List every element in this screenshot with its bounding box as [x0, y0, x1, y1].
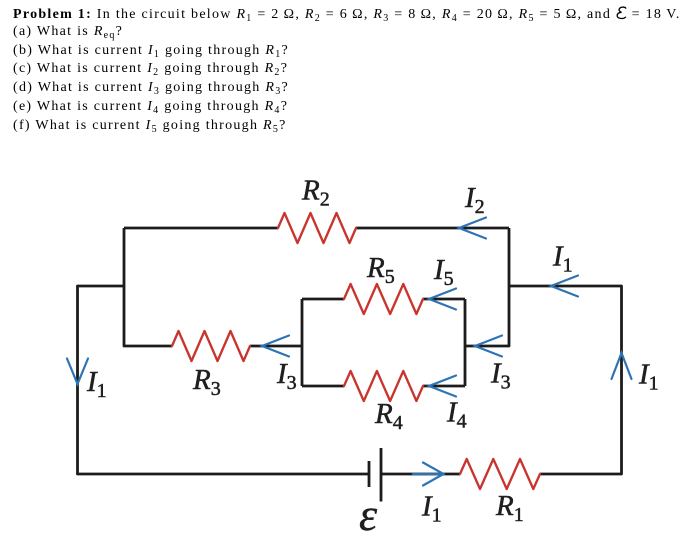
- svg-text:R5: R5: [366, 252, 395, 288]
- svg-text:R2: R2: [301, 175, 330, 211]
- svg-text:I3: I3: [490, 358, 511, 394]
- svg-text:ε: ε: [359, 489, 378, 540]
- svg-text:R3: R3: [192, 364, 221, 400]
- svg-text:I2: I2: [464, 182, 485, 218]
- svg-text:R1: R1: [495, 490, 524, 526]
- svg-text:I3: I3: [276, 358, 297, 394]
- svg-text:I4: I4: [446, 397, 467, 433]
- svg-text:R4: R4: [374, 398, 403, 434]
- svg-text:I1: I1: [638, 359, 659, 395]
- svg-text:I5: I5: [433, 254, 454, 290]
- svg-text:I1: I1: [86, 366, 107, 402]
- svg-text:I1: I1: [421, 491, 442, 527]
- svg-text:I1: I1: [552, 241, 573, 277]
